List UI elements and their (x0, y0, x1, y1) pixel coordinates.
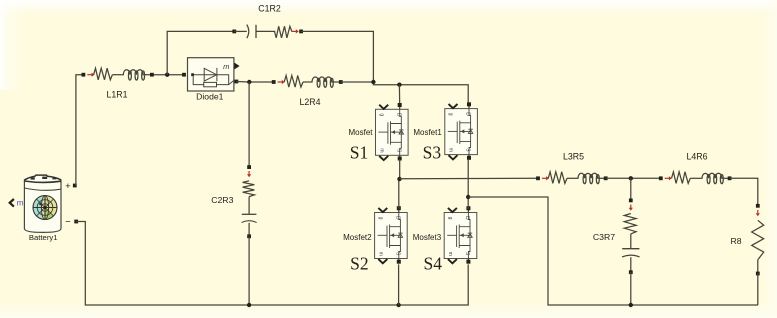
mosfet S2 (Mosfet2) (375, 206, 408, 264)
branch L4R6 (series RL) (659, 172, 732, 184)
svg-text:Battery1: Battery1 (29, 233, 58, 242)
node junction S1 drain (397, 83, 401, 87)
wire mid rail to L3R5 (400, 177, 538, 179)
node junction L1R1/C1R2 (165, 73, 169, 77)
svg-text:−: − (65, 216, 71, 227)
svg-text:m: m (448, 148, 454, 152)
svg-text:S2: S2 (350, 253, 368, 273)
wire Diode1 out to L2R4 (236, 81, 273, 84)
branch C1R2 (series RC) (232, 25, 303, 39)
node junction diode/C2R3 (247, 80, 251, 84)
svg-text:C3R7: C3R7 (593, 232, 615, 242)
svg-text:m: m (223, 62, 229, 71)
svg-text:m: m (378, 148, 384, 152)
svg-text:+: + (65, 181, 71, 192)
node junction C2R3/bus (247, 303, 251, 307)
svg-text:g: g (378, 113, 384, 116)
wire R8 to bus (757, 274, 759, 306)
mosfet S1 (Mosfet) (376, 103, 409, 161)
wire S1 source to S2 drain (398, 159, 401, 209)
node junction C3R7 top (629, 176, 633, 180)
wire battery- bottom bus (76, 222, 468, 306)
wire S3 source to S4 drain (467, 159, 469, 209)
wire L4R6 to R8 (730, 178, 758, 206)
wire S3/S4 mid to lower-right bus (468, 197, 758, 305)
svg-text:m: m (378, 252, 384, 256)
svg-text:Mosfet: Mosfet (348, 128, 373, 137)
battery Battery1 (24, 175, 61, 232)
diode D: Diode1 block (182, 58, 240, 91)
wire C1R2 to top rail (301, 31, 373, 82)
svg-text:Mosfet3: Mosfet3 (413, 233, 442, 242)
branch L2R4 (series RL) (272, 76, 343, 88)
svg-text:Mosfet1: Mosfet1 (413, 128, 442, 137)
wire C3R7 to bus (630, 272, 632, 305)
svg-text:m: m (16, 198, 23, 208)
svg-text:S3: S3 (423, 143, 442, 163)
svg-text:Mosfet2: Mosfet2 (343, 233, 372, 242)
wire S2 source to bus (398, 264, 400, 305)
svg-text:L2R4: L2R4 (299, 97, 320, 107)
wire up to C1R2 (167, 31, 234, 74)
svg-text:g: g (448, 113, 454, 116)
node junction S3/S4 midpoint (466, 195, 470, 199)
svg-text:L3R5: L3R5 (563, 152, 584, 162)
wire down to C2R3 (248, 82, 250, 167)
mosfet S4 (Mosfet3) (444, 206, 477, 264)
wire down to C3R7 (630, 178, 632, 200)
battery m port (10, 199, 14, 207)
node junction C3R7/bus (629, 303, 633, 307)
branch C3R7 (series RC vertical) (622, 199, 640, 275)
svg-text:S1: S1 (350, 143, 368, 163)
wire battery+ to L1R1 (76, 75, 84, 186)
branch C2R3 (series RC vertical) (242, 165, 257, 238)
node junction S2 source/bus (396, 303, 400, 307)
wire L1R1 to Diode1 (152, 74, 184, 76)
svg-text:C1R2: C1R2 (258, 4, 281, 14)
svg-text:L4R6: L4R6 (686, 152, 707, 162)
svg-text:C2R3: C2R3 (211, 195, 233, 205)
svg-text:g: g (378, 217, 384, 220)
svg-text:m: m (447, 252, 453, 256)
wire L3R5 to L4R6 (606, 177, 661, 179)
mosfet S3 (Mosfet1) (445, 102, 478, 160)
branch L3R5 (series RL) (536, 172, 608, 184)
svg-text:L1R1: L1R1 (106, 90, 127, 100)
node junction S1/S2 midpoint (397, 177, 401, 181)
svg-text:R8: R8 (730, 236, 741, 246)
branch L1R1 (series RL) (82, 68, 154, 80)
svg-text:S4: S4 (424, 253, 443, 273)
wire C2R3 to bottom bus (248, 236, 250, 305)
svg-text:Diode1: Diode1 (196, 92, 223, 102)
resistor R8 (752, 204, 764, 276)
svg-text:g: g (447, 217, 453, 220)
wire top rail (341, 81, 374, 83)
